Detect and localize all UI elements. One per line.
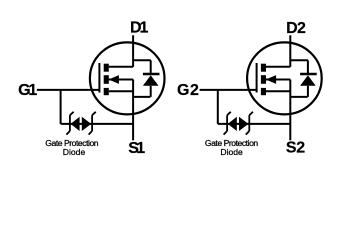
svg-text:G2: G2 [177,82,199,99]
svg-text:Diode: Diode [63,147,86,157]
svg-text:D2: D2 [286,20,306,37]
svg-text:S2: S2 [286,140,305,157]
svg-text:D1: D1 [130,20,148,37]
svg-text:Diode: Diode [220,147,243,157]
svg-text:G1: G1 [18,82,37,99]
svg-text:S1: S1 [128,140,145,157]
